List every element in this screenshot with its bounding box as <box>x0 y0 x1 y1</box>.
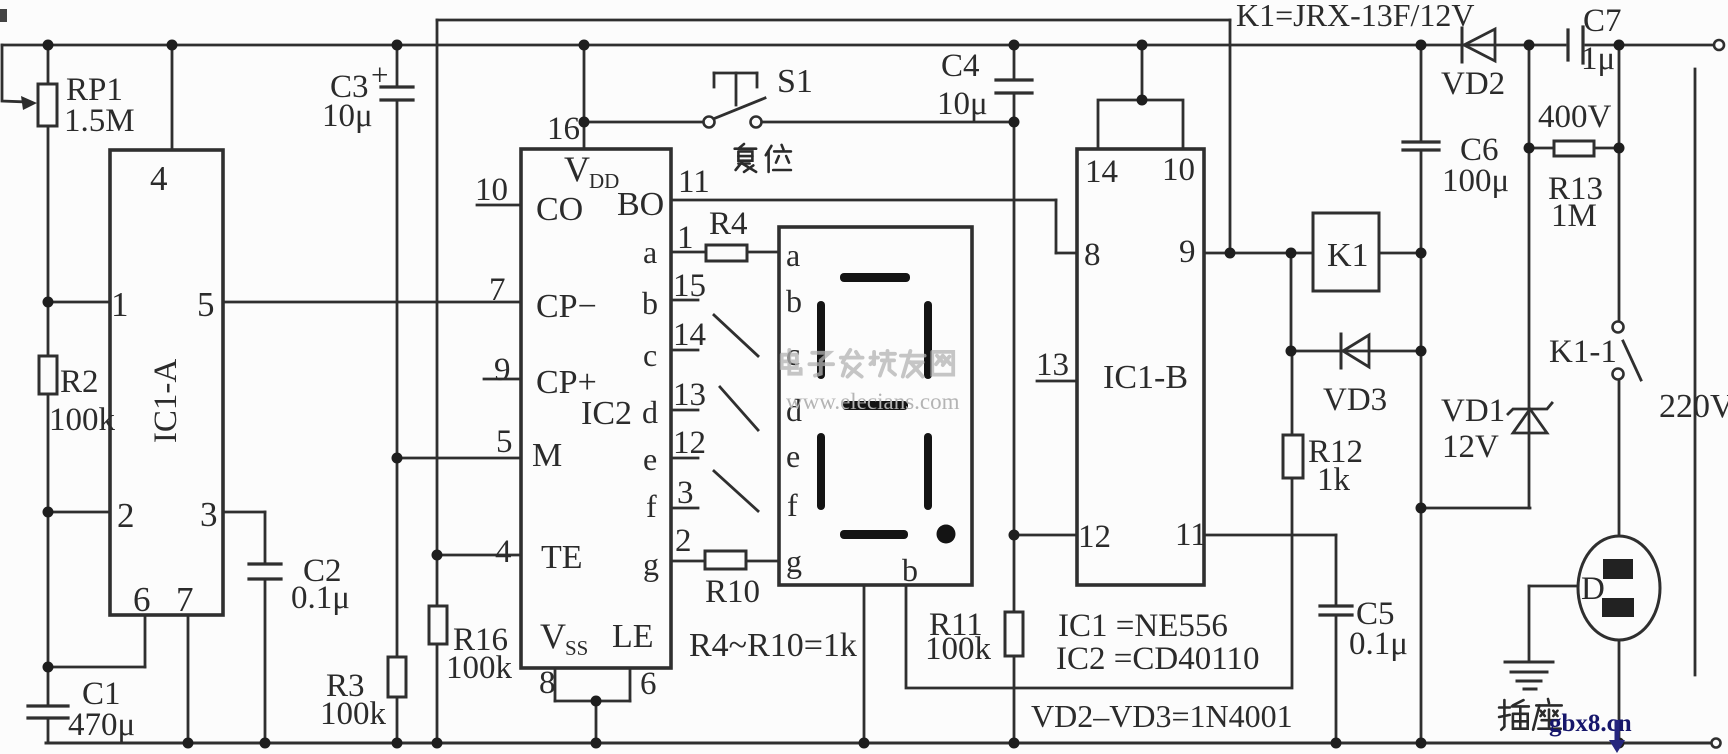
svg-text:9: 9 <box>1179 234 1196 270</box>
svg-text:4: 4 <box>150 159 168 198</box>
svg-text:DD: DD <box>589 169 619 193</box>
svg-text:R4: R4 <box>709 206 748 242</box>
svg-text:12V: 12V <box>1442 429 1499 465</box>
svg-text:16: 16 <box>547 111 580 147</box>
svg-text:C4: C4 <box>941 48 980 84</box>
svg-text:8: 8 <box>539 665 556 701</box>
svg-text:SS: SS <box>565 636 588 660</box>
svg-text:K1=JRX-13F/12V: K1=JRX-13F/12V <box>1236 0 1475 33</box>
svg-text:8: 8 <box>1084 237 1101 273</box>
svg-text:K1-1: K1-1 <box>1549 334 1617 370</box>
svg-text:K1: K1 <box>1327 237 1369 274</box>
svg-text:12: 12 <box>1078 519 1111 555</box>
svg-text:3: 3 <box>677 475 694 511</box>
svg-text:VD2–VD3=1N4001: VD2–VD3=1N4001 <box>1031 698 1293 734</box>
svg-text:TE: TE <box>541 539 583 576</box>
svg-text:14: 14 <box>673 317 706 353</box>
svg-text:M: M <box>532 437 562 474</box>
svg-text:1μ: 1μ <box>1581 41 1615 77</box>
svg-text:100k: 100k <box>49 402 116 438</box>
svg-text:IC2: IC2 <box>581 395 632 432</box>
svg-text:BO: BO <box>617 186 664 223</box>
svg-text:VD3: VD3 <box>1323 382 1387 418</box>
svg-text:VD2: VD2 <box>1441 66 1505 102</box>
svg-text:4: 4 <box>495 534 512 570</box>
svg-text:b: b <box>786 283 802 319</box>
svg-text:13: 13 <box>673 377 706 413</box>
svg-text:470μ: 470μ <box>68 707 135 743</box>
svg-text:100μ: 100μ <box>1442 163 1509 199</box>
svg-text:1k: 1k <box>1317 462 1351 498</box>
svg-text:a: a <box>786 237 800 273</box>
svg-text:d: d <box>642 394 658 430</box>
svg-text:LE: LE <box>612 618 654 655</box>
svg-text:CP−: CP− <box>536 288 597 325</box>
svg-text:b: b <box>902 552 918 588</box>
svg-text:C7: C7 <box>1583 3 1622 39</box>
svg-text:S1: S1 <box>777 63 813 100</box>
svg-text:1M: 1M <box>1551 198 1597 234</box>
svg-text:5: 5 <box>496 424 513 460</box>
svg-text:7: 7 <box>176 580 194 619</box>
svg-text:IC1-B: IC1-B <box>1103 359 1188 396</box>
svg-text:10: 10 <box>475 172 508 208</box>
svg-text:VD1: VD1 <box>1441 393 1505 429</box>
svg-text:400V: 400V <box>1538 99 1612 135</box>
svg-text:e: e <box>643 441 657 477</box>
svg-text:6: 6 <box>640 666 657 702</box>
svg-text:100k: 100k <box>446 650 513 686</box>
svg-text:10μ: 10μ <box>937 86 988 122</box>
svg-text:10μ: 10μ <box>322 98 373 134</box>
svg-text:c: c <box>643 337 657 373</box>
svg-text:g: g <box>643 546 659 582</box>
svg-text:11: 11 <box>1175 517 1207 553</box>
svg-text:+: + <box>371 57 388 92</box>
svg-text:V: V <box>540 616 566 656</box>
svg-text:R4~R10=1k: R4~R10=1k <box>689 627 857 664</box>
svg-text:5: 5 <box>197 285 215 324</box>
svg-text:14: 14 <box>1085 154 1118 190</box>
svg-text:100k: 100k <box>320 696 387 732</box>
svg-text:7: 7 <box>489 272 506 308</box>
svg-text:11: 11 <box>678 164 710 200</box>
svg-text:1.5M: 1.5M <box>64 103 135 139</box>
svg-text:D: D <box>1581 571 1605 607</box>
svg-text:IC1-A: IC1-A <box>148 359 184 443</box>
svg-text:b: b <box>642 285 658 321</box>
svg-text:13: 13 <box>1036 347 1069 383</box>
svg-text:e: e <box>786 438 800 474</box>
svg-text:a: a <box>643 234 657 270</box>
svg-text:0.1μ: 0.1μ <box>1349 626 1408 662</box>
svg-text:2: 2 <box>117 496 135 535</box>
svg-text:IC1 =NE556: IC1 =NE556 <box>1058 608 1228 644</box>
svg-text:g: g <box>786 543 802 579</box>
svg-text:100k: 100k <box>925 631 992 667</box>
svg-text:CO: CO <box>536 191 583 228</box>
svg-text:f: f <box>787 487 798 523</box>
svg-text:R10: R10 <box>705 574 760 610</box>
svg-text:R2: R2 <box>60 364 99 400</box>
svg-text:1: 1 <box>677 220 694 256</box>
svg-text:10: 10 <box>1162 152 1195 188</box>
svg-text:220V: 220V <box>1659 388 1728 425</box>
svg-text:1: 1 <box>111 285 129 324</box>
svg-text:12: 12 <box>673 425 706 461</box>
svg-text:15: 15 <box>673 268 706 304</box>
svg-text:2: 2 <box>675 523 692 559</box>
svg-text:www.elecians.com: www.elecians.com <box>786 389 960 414</box>
svg-text:f: f <box>646 488 657 524</box>
svg-text:0.1μ: 0.1μ <box>291 580 350 616</box>
svg-text:6: 6 <box>133 580 151 619</box>
svg-text:IC2 =CD40110: IC2 =CD40110 <box>1056 641 1259 677</box>
svg-text:V: V <box>564 149 590 189</box>
svg-text:3: 3 <box>200 495 218 534</box>
svg-text:9: 9 <box>494 352 511 388</box>
